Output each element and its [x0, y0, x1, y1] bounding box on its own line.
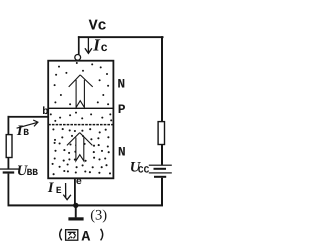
ground bar [68, 217, 83, 220]
wire emitter vertical [74, 179, 76, 206]
battery UBB long plate [0, 168, 19, 169]
terminal c circle [75, 55, 81, 61]
collector region dots [54, 62, 110, 105]
transistor body box [48, 61, 113, 179]
svg-text:Vc: Vc [89, 17, 107, 34]
svg-text:(3): (3) [90, 207, 107, 223]
svg-text:e: e [76, 177, 82, 188]
wire collector stub to terminal c [78, 36, 80, 54]
wire right vertical upper segment [161, 36, 163, 121]
base region dots [50, 112, 112, 122]
svg-text:N: N [117, 76, 125, 91]
svg-text:BB: BB [27, 167, 39, 178]
caption close paren [101, 229, 103, 241]
svg-text:N: N [118, 144, 126, 159]
svg-text:A: A [82, 229, 91, 245]
divider N/P [48, 108, 113, 109]
wire left between resistor and battery [8, 158, 10, 169]
junction node e [73, 203, 78, 208]
battery UCC short plate 2 [154, 176, 166, 178]
resistor Rc (right) [158, 122, 164, 145]
resistor Rb (left) [6, 135, 12, 158]
current arrow IE [63, 183, 71, 200]
svg-text:P: P [118, 102, 126, 117]
svg-text:I: I [47, 180, 55, 196]
hollow arrow lower (electron flow, emitter) [67, 133, 93, 161]
wire bottom horizontal [8, 204, 164, 206]
wire base horizontal [8, 116, 49, 118]
battery UCC long plate 1 [149, 165, 172, 166]
wire left lower segment [8, 174, 10, 206]
svg-text:CC: CC [138, 164, 150, 175]
battery UCC short plate 1 [154, 168, 167, 170]
hollow arrow upper (electron flow, collector) [69, 75, 93, 108]
wire right lower segment [161, 178, 163, 206]
wire right between resistor and battery [161, 145, 163, 165]
svg-text:c: c [101, 41, 108, 55]
emitter region dots [52, 128, 111, 175]
divider P/N (dashed) [48, 124, 113, 126]
svg-text:E: E [56, 185, 62, 196]
current arrow IB [17, 120, 38, 128]
svg-text:B: B [23, 127, 29, 138]
wire top horizontal (Vc rail) [78, 36, 164, 38]
caption character tu (figure) [66, 230, 78, 241]
caption open paren [60, 229, 62, 241]
current arrow IC [85, 38, 92, 54]
battery UCC long plate 2 [149, 172, 172, 173]
ground stub [75, 205, 77, 217]
battery UBB short plate [3, 171, 15, 173]
wire left vertical upper segment [8, 116, 10, 135]
